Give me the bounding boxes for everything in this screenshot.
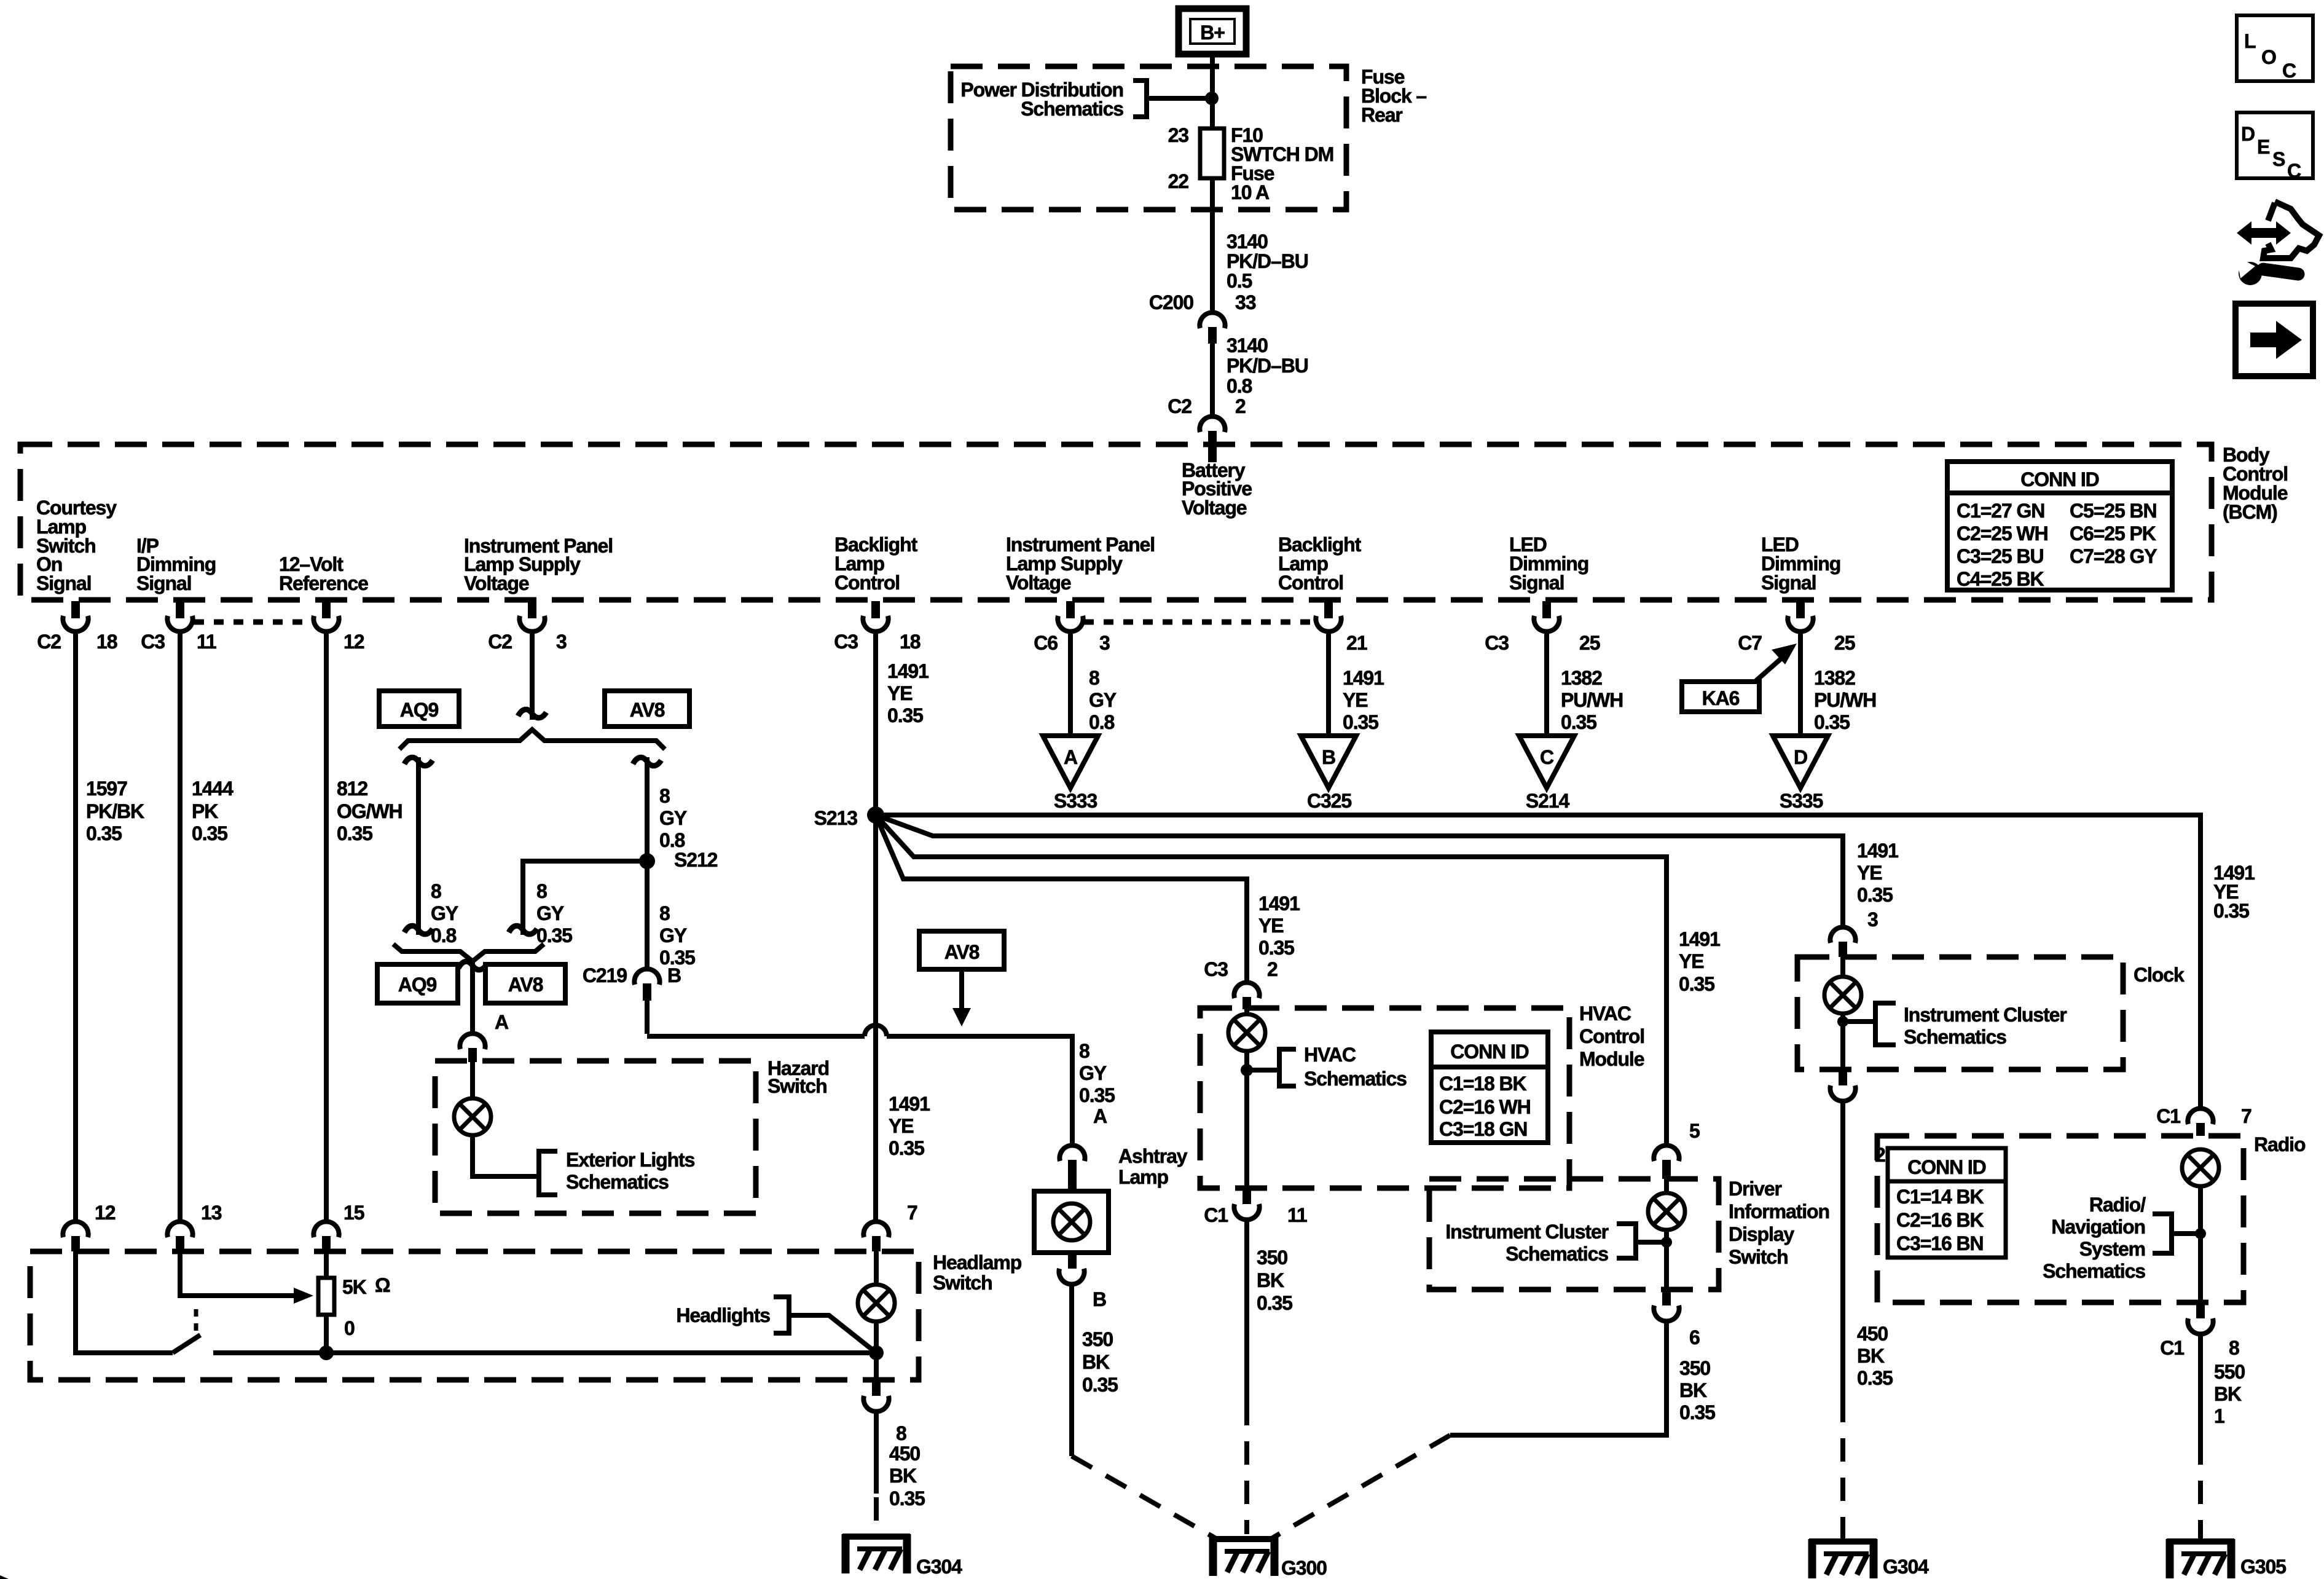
splice triangle S214 C [1519,736,1574,788]
wire 8 GY 0.35 branch from S212 [523,861,647,935]
svg-text:BK: BK [1257,1269,1284,1291]
S213 fan wire 2 to clock [876,815,1843,925]
svg-text:Radio: Radio [2254,1133,2306,1156]
hazard switch dashed box [435,1061,756,1213]
wire 1491 YE C325 [1326,633,1331,736]
connector B out of ashtray [1068,1253,1077,1269]
ashtray lamp [1053,1203,1090,1240]
svg-text:B: B [667,964,681,986]
corner mark [0,1575,9,1579]
svg-text:Switch: Switch [767,1075,827,1097]
svg-text:C6=25 PK: C6=25 PK [2070,522,2156,545]
svg-text:HVAC: HVAC [1304,1044,1356,1066]
svg-text:0.35: 0.35 [1257,1292,1292,1314]
option box AQ9 lower [377,964,458,1003]
wire 812 OG/WH 12V ref [324,633,329,1219]
svg-text:5: 5 [1689,1120,1700,1142]
svg-text:PK/D–BU: PK/D–BU [1227,355,1308,377]
bracket headlights [774,1297,789,1333]
wire 350 BK ashtray to G300 [1069,1286,1074,1456]
ground G300 [1210,1537,1278,1576]
svg-text:YE: YE [1343,689,1368,711]
svg-text:Signal: Signal [1509,572,1564,594]
svg-text:Clock: Clock [2134,964,2185,986]
svg-text:Module: Module [1579,1048,1644,1070]
svg-text:25: 25 [1834,632,1855,654]
BCM pin C3 25 connector [1534,601,1559,632]
body control module BCM dashed box [20,444,2212,600]
svg-text:CONN ID: CONN ID [1450,1041,1528,1063]
wire end coupling [518,709,546,718]
svg-text:0.35: 0.35 [86,822,122,845]
svg-text:C3=25 BU: C3=25 BU [1957,545,2044,567]
wire fuse to C200 [1210,178,1215,310]
wire bracket to node [1147,96,1212,101]
bracket radio navigation [2153,1214,2172,1253]
wire C2-3 to splice braces [530,633,535,720]
svg-text:1382: 1382 [1814,667,1855,689]
svg-text:0.35: 0.35 [1679,973,1714,995]
svg-text:Switch: Switch [1729,1246,1788,1268]
B+ battery terminal [1179,9,1246,54]
svg-text:12: 12 [95,1202,116,1224]
HVAC control module dashed box [1200,1008,1569,1188]
svg-text:Switch: Switch [933,1272,992,1294]
svg-text:BK: BK [889,1465,917,1487]
svg-text:YE: YE [1679,950,1704,972]
splice S213 [867,806,884,824]
svg-text:GY: GY [659,924,687,947]
junction to radio navigation schematics [2195,1228,2206,1239]
svg-text:0.35: 0.35 [1343,711,1378,733]
connector C1 11 out of HVAC [1242,1188,1251,1204]
svg-text:1: 1 [2214,1405,2224,1427]
svg-text:Ω: Ω [375,1274,390,1296]
svg-text:E: E [2257,136,2270,158]
connector 12 into headlamp switch [63,1221,88,1237]
svg-text:0.35: 0.35 [1258,937,1294,959]
dotted link C6-3 to 21 [1084,620,1315,625]
svg-text:350: 350 [1082,1328,1113,1350]
svg-text:(BCM): (BCM) [2223,501,2277,523]
svg-text:C2: C2 [37,631,61,653]
wire B to ashtray feed [647,1001,865,1036]
dotted link C3-11 to 12 [194,620,312,625]
fuse block rear dashed box [951,66,1346,210]
option box AV8 with arrow [919,931,1004,969]
svg-text:0.35: 0.35 [1857,1367,1893,1389]
svg-text:350: 350 [1679,1357,1710,1379]
svg-text:A: A [1093,1105,1107,1127]
connector triangle C325 B [1301,736,1356,788]
svg-text:C325: C325 [1307,790,1351,812]
svg-text:Signal: Signal [1761,572,1816,594]
svg-text:C3=18 GN: C3=18 GN [1439,1118,1527,1140]
junction to instrument cluster schematics [1661,1237,1672,1248]
svg-text:450: 450 [889,1443,920,1465]
svg-text:3: 3 [1099,632,1110,654]
svg-text:A: A [495,1011,509,1033]
svg-text:2: 2 [1267,958,1278,980]
svg-text:11: 11 [197,631,216,653]
svg-text:0.35: 0.35 [1079,1084,1115,1106]
wire 450 BK to G304 [874,1414,879,1494]
wire switch output [213,1350,876,1355]
svg-text:C3: C3 [1485,632,1509,654]
svg-text:KA6: KA6 [1702,687,1740,709]
svg-text:21: 21 [1346,632,1367,654]
connector C219 pin B [634,969,659,985]
svg-text:O: O [2261,46,2276,68]
resistor 5K potentiometer [324,1251,329,1353]
svg-text:1382: 1382 [1561,667,1602,689]
option brace upper AQ9/AV8 [399,730,665,749]
svg-text:8: 8 [431,880,441,902]
svg-text:YE: YE [1857,862,1882,884]
svg-text:G305: G305 [2240,1556,2286,1578]
S213 fan wire 4 to HVAC [876,815,1247,980]
svg-text:Driver: Driver [1729,1178,1782,1200]
wire C200 to C2 [1210,344,1215,414]
svg-text:G300: G300 [1281,1557,1327,1579]
wire B+ to fuse [1210,54,1215,128]
wire 350 BK HVAC to G300 [1244,1222,1249,1402]
svg-text:HVAC: HVAC [1579,1002,1631,1025]
svg-text:A: A [1064,746,1078,768]
svg-text:C1=14 BK: C1=14 BK [1896,1186,1984,1208]
icon DESC box [2237,112,2313,178]
svg-text:0.35: 0.35 [889,1137,924,1159]
svg-text:C7=28 GY: C7=28 GY [2070,545,2157,567]
svg-text:3140: 3140 [1227,230,1268,253]
bracket instrument cluster clock [1875,1003,1896,1045]
svg-text:S335: S335 [1780,790,1823,812]
bracket HVAC schematics [1279,1049,1296,1086]
connector 7 into headlamp switch [863,1221,889,1237]
svg-text:C3: C3 [834,631,858,653]
bracket instrument cluster DIDS [1617,1224,1636,1258]
DIDS lamp [1664,1179,1669,1193]
ground G304 right [1809,1539,1877,1578]
wire 550 BK radio to G305 [2198,1336,2203,1441]
wiper arrow from 13 [180,1251,294,1296]
svg-text:Headlights: Headlights [676,1304,770,1326]
svg-text:Reference: Reference [279,572,368,594]
svg-text:8: 8 [659,785,670,807]
svg-text:1491: 1491 [1343,667,1384,689]
svg-text:C219: C219 [583,964,627,986]
CONN ID table radio [1888,1148,2006,1258]
svg-text:PU/WH: PU/WH [1814,689,1876,711]
svg-text:Lamp: Lamp [1118,1166,1168,1188]
svg-text:C200: C200 [1149,291,1193,313]
svg-text:Schematics: Schematics [1505,1243,1608,1265]
svg-text:Ashtray: Ashtray [1118,1145,1188,1167]
svg-text:0.35: 0.35 [1679,1401,1715,1423]
svg-text:18: 18 [900,631,921,653]
wire 8 GY 0.8 right branch [645,757,650,967]
wire lamp to exterior lights bracket [473,1136,539,1176]
svg-text:5K: 5K [342,1276,367,1298]
svg-text:PK/BK: PK/BK [86,800,144,822]
svg-text:Instrument Cluster: Instrument Cluster [1445,1221,1608,1243]
wire 350 BK DIDS to G300 [1450,1323,1666,1435]
svg-text:System: System [2079,1238,2145,1260]
svg-text:D: D [1794,746,1807,768]
svg-text:0.35: 0.35 [887,704,923,726]
svg-text:AQ9: AQ9 [400,699,439,721]
svg-text:Schematics: Schematics [1304,1068,1407,1090]
svg-text:8: 8 [659,902,670,924]
wire label 8 GY 0.8 S333 [1068,633,1073,736]
svg-text:CONN ID: CONN ID [1907,1156,1985,1178]
svg-text:0.35: 0.35 [1814,711,1850,733]
svg-text:YE: YE [1258,915,1284,937]
switch arm [173,1335,200,1353]
svg-text:C5=25 BN: C5=25 BN [2070,500,2157,522]
BCM pin C3 11 connector [167,601,192,632]
svg-text:CONN ID: CONN ID [2020,468,2098,490]
junction to instrument cluster schematics clock [1837,1016,1848,1027]
svg-text:C3: C3 [1204,958,1228,980]
svg-text:3: 3 [556,631,567,653]
wire 12 inside box to switch [76,1251,173,1353]
svg-text:B: B [1322,746,1335,768]
headlamp wire into box [874,1251,879,1283]
svg-text:Exterior Lights: Exterior Lights [566,1149,695,1171]
svg-text:Signal: Signal [136,572,191,594]
svg-text:C7: C7 [1738,632,1762,654]
svg-text:812: 812 [337,778,367,800]
svg-text:S214: S214 [1526,790,1570,812]
svg-text:S213: S213 [814,807,858,829]
svg-text:PU/WH: PU/WH [1561,689,1623,711]
svg-text:C1: C1 [2156,1105,2180,1127]
svg-text:Information: Information [1729,1200,1829,1223]
svg-text:S333: S333 [1054,790,1097,812]
icon vehicle outline with double arrow and wrench [2249,228,2280,238]
BCM pin 21 connector [1316,601,1341,632]
BCM pin C2 18 connector [63,601,88,632]
main backlight wire C3-18 down [873,633,878,1219]
svg-text:C2: C2 [488,631,512,653]
svg-text:1491: 1491 [889,1093,930,1115]
svg-text:8: 8 [1079,1040,1089,1062]
ground G305 [2167,1539,2234,1578]
wire 1382 PU/WH S335 [1798,633,1803,736]
svg-text:18: 18 [96,631,117,653]
svg-text:3140: 3140 [1227,334,1268,356]
svg-text:C: C [1540,746,1554,768]
svg-text:7: 7 [2241,1105,2251,1127]
svg-text:Control: Control [1278,572,1343,594]
CONN ID table HVAC [1431,1032,1548,1143]
connector A into ashtray lamp [1059,1145,1085,1161]
svg-text:15: 15 [343,1202,364,1224]
svg-text:L: L [2244,30,2256,52]
svg-text:AV8: AV8 [508,974,543,996]
svg-text:PK: PK [192,800,218,822]
svg-text:22: 22 [1168,170,1189,192]
svg-text:Schematics: Schematics [2043,1260,2145,1282]
svg-text:Radio/: Radio/ [2089,1194,2146,1216]
svg-text:S212: S212 [674,849,718,871]
BCM pin C2 3 connector [519,601,544,632]
clock lamp [1840,957,1845,977]
svg-text:Display: Display [1729,1223,1794,1245]
svg-text:C4=25 BK: C4=25 BK [1957,568,2044,590]
hazard lamp [470,1062,475,1098]
svg-text:BK: BK [2214,1383,2242,1405]
wire 1444 PK dimming [178,633,183,1219]
svg-text:0.5: 0.5 [1227,270,1252,292]
CONN ID table BCM [1947,462,2172,590]
clock dashed box [1797,957,2123,1069]
svg-text:8: 8 [1089,667,1099,689]
svg-text:C2=16 WH: C2=16 WH [1439,1096,1531,1118]
svg-text:C: C [2287,160,2301,182]
svg-text:GY: GY [431,902,458,924]
svg-text:Signal: Signal [36,572,91,594]
wire 1382 PU/WH S214 [1544,633,1549,736]
svg-text:Headlamp: Headlamp [933,1251,1022,1274]
svg-text:Schematics: Schematics [566,1171,669,1193]
splice S212 [639,853,655,869]
svg-text:Schematics: Schematics [1021,98,1123,120]
svg-text:0.35: 0.35 [889,1487,925,1510]
junction dot under headlamp lamp [869,1345,884,1360]
fuse F10 SWTCH DM 10A [1200,128,1224,178]
ashtray lamp box [1034,1191,1109,1253]
svg-text:23: 23 [1168,124,1189,146]
svg-text:1491: 1491 [1258,892,1300,915]
svg-text:C2=25 WH: C2=25 WH [1957,522,2048,545]
svg-text:0.8: 0.8 [1089,711,1114,733]
svg-text:Schematics: Schematics [1904,1026,2006,1048]
connector 6 out of DIDS [1662,1290,1671,1305]
wire 450 BK clock to G304 [1840,1103,1845,1399]
svg-text:C1: C1 [1204,1204,1228,1226]
icon arrow box [2236,304,2313,376]
bracket exterior lights [539,1151,557,1195]
svg-text:8: 8 [896,1422,906,1444]
radio lamp [2182,1149,2219,1186]
connector 15 into headlamp switch [313,1221,339,1237]
svg-text:Control: Control [1579,1025,1644,1047]
svg-text:33: 33 [1235,291,1256,313]
svg-text:13: 13 [201,1202,222,1224]
svg-text:S: S [2272,148,2285,170]
svg-text:2: 2 [1235,395,1246,417]
ground G304 left [842,1534,910,1573]
headlamp switch dashed box [30,1251,919,1380]
svg-text:1444: 1444 [192,778,234,800]
svg-text:B: B [1093,1288,1106,1310]
BCM pin C3 18 connector [863,601,888,632]
connector 2 out of clock [1839,1069,1847,1085]
svg-text:BK: BK [1857,1345,1885,1367]
svg-text:GY: GY [1079,1062,1107,1084]
svg-text:0.35: 0.35 [1561,711,1596,733]
wire 1597 PK/BK courtesy [73,633,78,1219]
svg-text:G304: G304 [916,1556,962,1578]
svg-text:Navigation: Navigation [2051,1216,2145,1238]
junction pot to wire [319,1345,334,1360]
svg-text:11: 11 [1287,1204,1307,1226]
svg-text:C3=16 BN: C3=16 BN [1896,1232,1984,1254]
splice triangle S333 A [1043,736,1098,788]
svg-text:Control: Control [834,572,900,594]
svg-text:12: 12 [343,631,364,653]
svg-text:OG/WH: OG/WH [337,800,402,822]
S213 fan wire 3 to DIDS [876,815,1666,1143]
svg-text:0.35: 0.35 [1082,1374,1118,1396]
svg-text:1491: 1491 [1679,928,1720,950]
svg-text:C1=27 GN: C1=27 GN [1957,500,2044,522]
option box KA6 with arrow [1682,682,1759,712]
junction to HVAC schematics [1241,1064,1253,1076]
svg-text:550: 550 [2214,1361,2245,1383]
S213 fan wire 1 to radio [876,815,2200,1106]
option box AV8 upper [605,691,689,726]
connector 8 out of headlamp switch [872,1380,881,1396]
BCM pin 12 connector [313,601,339,632]
svg-text:C2=16 BK: C2=16 BK [1896,1209,1984,1231]
svg-text:0.35: 0.35 [1857,884,1893,906]
svg-text:Voltage: Voltage [1006,572,1071,594]
svg-text:Voltage: Voltage [1182,497,1247,519]
svg-text:350: 350 [1257,1246,1287,1269]
svg-text:C6: C6 [1034,632,1058,654]
svg-text:YE: YE [887,682,913,704]
svg-text:6: 6 [1689,1326,1700,1349]
svg-text:C: C [2282,60,2296,82]
mechanical link dotted [194,1309,198,1337]
svg-text:B+: B+ [1200,22,1225,44]
svg-text:1491: 1491 [887,660,928,682]
wire hop over headlamp wire [865,1025,887,1036]
BCM pin C6 3 connector [1058,601,1083,632]
svg-text:0.35: 0.35 [2213,900,2249,922]
svg-text:BK: BK [1679,1379,1707,1401]
junction dot at B+ feed [1205,92,1219,105]
svg-text:0.35: 0.35 [337,822,372,845]
driver information display switch dashed box [1429,1179,1719,1290]
svg-text:GY: GY [536,902,564,924]
svg-text:Voltage: Voltage [464,572,529,594]
svg-text:C2: C2 [1168,395,1191,417]
svg-text:AQ9: AQ9 [398,974,437,996]
svg-text:G304: G304 [1883,1556,1929,1578]
svg-text:Rear: Rear [1361,104,1402,126]
svg-text:0: 0 [344,1317,355,1339]
svg-text:25: 25 [1579,632,1600,654]
svg-text:0.8: 0.8 [659,829,685,851]
svg-text:8: 8 [536,880,547,902]
svg-text:GY: GY [659,807,687,829]
splice triangle S335 D [1773,736,1828,788]
svg-text:8: 8 [2229,1337,2239,1359]
bracket power distribution [1133,81,1147,117]
connector 13 into headlamp switch [167,1221,192,1237]
svg-text:AV8: AV8 [944,941,979,963]
svg-text:C3: C3 [141,631,165,653]
svg-text:0.8: 0.8 [1227,375,1252,397]
svg-text:1597: 1597 [86,778,127,800]
radio dashed box [1877,1136,2244,1302]
option box AV8 lower [485,964,565,1003]
connector C219 pin A [470,961,475,1031]
